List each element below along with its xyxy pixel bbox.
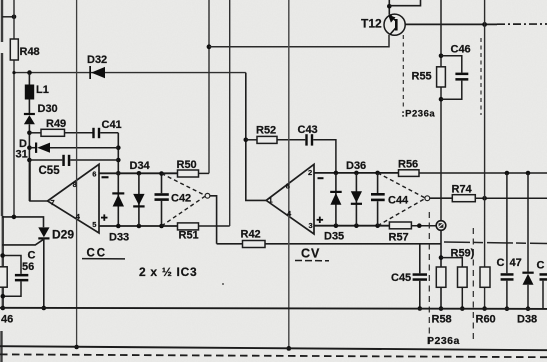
resistor R60 bbox=[476, 267, 496, 326]
svg-text:CC: CC bbox=[87, 248, 108, 260]
resistor R49 bbox=[29, 118, 92, 136]
svg-text:D36: D36 bbox=[346, 160, 366, 172]
op-amp U-IC3a (CC half) bbox=[48, 164, 100, 233]
node: junction (356.4,225.7) bbox=[354, 223, 359, 228]
node: junction left rail on bus bbox=[1, 306, 6, 311]
node: junction (138.9,226) bbox=[137, 224, 142, 229]
svg-text:D32: D32 bbox=[87, 54, 107, 66]
resistor R56 bbox=[398, 159, 547, 177]
minus sign op2 bbox=[318, 177, 324, 179]
resistor R74 bbox=[452, 184, 547, 202]
terminal node (circled) bbox=[436, 221, 446, 231]
node: junction R55 bottom (441,99.2) bbox=[439, 97, 444, 102]
wire: diagonal from D29 cathode to left wire y=245 bbox=[2, 239, 44, 245]
node: junction (13.9,216.9) bbox=[12, 215, 17, 220]
resistor R52 bbox=[246, 125, 305, 144]
node: junction (209,46.8) bbox=[207, 44, 212, 49]
wire: top link (389.3,5.7)-(420.5,5.7) then up bbox=[389, 0, 420, 6]
node: junction power rail on bottom bus bbox=[74, 345, 79, 350]
resistor R57 bbox=[389, 222, 437, 244]
stray mark bbox=[222, 283, 224, 285]
dashed enclosure P236a (bottom) left edge bbox=[428, 212, 430, 344]
wire: T12 collector up to top node bbox=[388, 0, 390, 15]
svg-text:C: C bbox=[497, 257, 505, 269]
svg-text:D33: D33 bbox=[109, 232, 129, 244]
left scan-edge band bbox=[2, 0, 3, 362]
svg-text:D35: D35 bbox=[324, 231, 344, 243]
resistor R59 bbox=[451, 248, 475, 309]
resistor R46 (cut at edge) bbox=[0, 267, 13, 326]
svg-text:P236a: P236a bbox=[427, 335, 460, 347]
wire: terminal down through R58 to bottom bus bbox=[440, 230, 442, 308]
wire: vertical x=209 from top edge down to R50 bbox=[208, 0, 210, 173]
node: junction (161.5,226) bbox=[159, 224, 164, 229]
wire: vertical x=118.3 from C41 corner to minus rail bbox=[117, 133, 119, 174]
svg-text:R51: R51 bbox=[179, 230, 199, 242]
wire: horizontal bus y=308.4 bbox=[0, 308, 547, 309]
wire: CC minus input rail y=173.3 bbox=[99, 172, 178, 174]
node: junction (118.3,160) bbox=[116, 158, 121, 163]
wire: T12 base/right rail y=24.4 solid part bbox=[405, 23, 497, 25]
svg-text:C43: C43 bbox=[298, 124, 318, 136]
svg-text:2 x ½ IC3: 2 x ½ IC3 bbox=[139, 265, 197, 279]
svg-text:31: 31 bbox=[16, 149, 28, 161]
node: junction C47 top (506.9,173) bbox=[505, 171, 510, 176]
wire: chain line y=242.5 right section bbox=[444, 242, 547, 244]
resistor R55 bbox=[412, 67, 446, 87]
wire: R42 line y=243.8 from x=216.6 to x=441 bbox=[217, 243, 441, 245]
svg-text:6: 6 bbox=[92, 170, 96, 179]
node: junction (356.4,172.9) bbox=[354, 171, 359, 176]
wire: vertical x=229.7 from top edge to plus rail bbox=[229, 0, 231, 226]
wire: bottom bus y=347 bbox=[0, 346, 547, 350]
wire: y=24.4 dash-dot continuation to right edge bbox=[497, 23, 547, 25]
node: junction at (14,72.6) bbox=[12, 71, 15, 74]
node: junction (377.6,225.7) bbox=[375, 223, 380, 228]
capacitor C44 bbox=[371, 173, 409, 226]
svg-text:CV: CV bbox=[301, 247, 320, 261]
node: junction R48 rail / left wire bbox=[12, 14, 17, 19]
node: junction (118.3,147.7) bbox=[116, 145, 121, 150]
transistor T12 bbox=[361, 14, 405, 35]
svg-text:C: C bbox=[537, 260, 545, 272]
svg-text:R50: R50 bbox=[177, 159, 197, 171]
capacitor C45 bbox=[391, 244, 427, 309]
diode D32 bbox=[87, 54, 107, 79]
svg-text:C41: C41 bbox=[102, 119, 122, 131]
svg-text:56: 56 bbox=[22, 261, 34, 273]
wire: bubble 2 to R74 bbox=[430, 197, 453, 199]
svg-text:C55: C55 bbox=[39, 165, 61, 177]
node: junction R60 bottom on bus bbox=[482, 306, 487, 311]
svg-text:R59): R59) bbox=[451, 248, 475, 260]
wire: D29 cathode down to bottom bus bbox=[43, 240, 45, 309]
wire: y=216.9 from left edge to D29 anode corner bbox=[2, 217, 44, 227]
capacitor C41 bbox=[92, 119, 121, 138]
wire: component column x=29.4 from D30 down to op-amp output corner bbox=[28, 124, 30, 201]
svg-text:C46: C46 bbox=[451, 44, 471, 56]
node: junction (138.9,173.3) bbox=[137, 171, 142, 176]
wire: horizontal y=72.6 from rail to x=245.8 (through D32) bbox=[14, 72, 246, 74]
node: junction C45 bottom bbox=[418, 306, 423, 311]
svg-text:46: 46 bbox=[1, 314, 13, 326]
svg-text:1: 1 bbox=[269, 196, 273, 205]
node: junction (2.6,255.5) bbox=[0, 253, 5, 258]
diode D33 bbox=[109, 173, 129, 243]
capacitor C43 bbox=[298, 124, 336, 173]
node: junction R58 bottom bbox=[439, 306, 444, 311]
node: junction power rail 2 on bottom bus bbox=[286, 346, 291, 351]
resistor R50 bbox=[177, 159, 210, 177]
svg-text:2: 2 bbox=[308, 168, 312, 177]
node: junction D38 top (528,173) bbox=[526, 171, 531, 176]
svg-text:C45: C45 bbox=[391, 272, 411, 284]
svg-text:R42: R42 bbox=[241, 229, 261, 241]
label CV bbox=[295, 247, 329, 261]
dashed comparator triangle 2 bbox=[378, 173, 425, 226]
svg-text:R52: R52 bbox=[256, 125, 276, 137]
wire: CV minus input rail y=172.9 bbox=[314, 172, 399, 174]
wire: CV plus input rail y=225.7 bbox=[314, 225, 389, 227]
svg-text:R60: R60 bbox=[476, 314, 496, 326]
svg-text:C: C bbox=[28, 250, 36, 262]
node: junction C55 (29.4,160) bbox=[27, 158, 32, 163]
svg-text:47: 47 bbox=[510, 257, 522, 269]
node: output bubble of dashed triangle 1 bbox=[205, 193, 210, 198]
node: junction R52 tap (245.8,139.8) bbox=[244, 138, 249, 143]
wire: vertical x=245.8 from D32 wire down to CV output bbox=[246, 73, 266, 201]
resistor R42 bbox=[241, 229, 266, 248]
plus sign op2 bbox=[317, 217, 324, 223]
wire: left edge to R48 rail at y=16.8 bbox=[2, 16, 14, 18]
svg-text:L1: L1 bbox=[36, 84, 49, 96]
resistor R58 bbox=[432, 267, 452, 326]
node: junction (484.6,24.4) bbox=[482, 22, 487, 27]
diode D29 bbox=[38, 227, 74, 241]
svg-text:8: 8 bbox=[73, 180, 77, 189]
svg-text:T12: T12 bbox=[361, 17, 382, 31]
minus sign op1 bbox=[102, 176, 109, 178]
dashed comparator triangle 1 (second half IC3) bbox=[162, 174, 205, 227]
power rail through op-amp 2 (pins 8/4) x=288.8 bbox=[288, 0, 290, 348]
capacitor at right edge (cut) bbox=[537, 260, 547, 309]
wire: bottom dashed boundary bbox=[0, 354, 547, 357]
svg-text:R58: R58 bbox=[432, 314, 452, 326]
node: junction R60 top (484.6,198.2) bbox=[482, 196, 487, 201]
diode D36 bbox=[346, 160, 366, 226]
dashed enclosure P236a (bottom) right edge bbox=[472, 228, 474, 343]
svg-text:R55: R55 bbox=[412, 71, 432, 83]
capacitor C55 bbox=[29, 155, 118, 177]
resistor R48 bbox=[10, 39, 18, 60]
svg-text:5: 5 bbox=[92, 220, 96, 229]
resistor R51 bbox=[178, 223, 230, 242]
capacitor C42 bbox=[155, 174, 192, 227]
op-amp U-IC3b (CV half) bbox=[266, 164, 314, 234]
node: junction (335.9,225.7) bbox=[334, 223, 339, 228]
capacitor C56 bbox=[3, 250, 36, 297]
svg-text:D29: D29 bbox=[52, 228, 74, 242]
svg-text:3: 3 bbox=[309, 221, 313, 230]
diode D30 bbox=[24, 100, 58, 125]
node: junction (118.3,226) bbox=[116, 224, 121, 229]
label CC bbox=[82, 248, 125, 260]
wire: from bubble right then down to R42 line bbox=[210, 196, 217, 244]
svg-text:8: 8 bbox=[286, 182, 290, 191]
node: junction (335.9,172.9) bbox=[334, 171, 339, 176]
node: junction C47 bottom bbox=[505, 306, 510, 311]
node: junction D38 bottom bbox=[526, 306, 531, 311]
node: junction R59 bottom bbox=[460, 306, 465, 311]
dashed enclosure P236a (top) right edge bbox=[480, 38, 482, 115]
wire: vertical x=441 from top edge down to terminal (through R55) bbox=[440, 0, 442, 221]
capacitor C47 bbox=[497, 173, 522, 309]
svg-text:R57: R57 bbox=[389, 232, 409, 244]
diode D38 bbox=[517, 173, 537, 326]
node: junction (419.3,225.7) bbox=[417, 223, 422, 228]
svg-text:D34: D34 bbox=[130, 160, 151, 172]
node: output bubble of dashed triangle 2 bbox=[425, 196, 430, 201]
node: junction R49 (29.4,132.8) bbox=[27, 131, 32, 136]
dashed enclosure P236a (top) left edge bbox=[402, 35, 404, 107]
svg-text::P236a: :P236a bbox=[402, 109, 436, 120]
diode D35 bbox=[324, 173, 344, 243]
wire: vertical rail x=14 (through R48) bbox=[13, 0, 15, 217]
svg-text:C44: C44 bbox=[388, 195, 409, 207]
wire: vertical x=484.6 from top edge down through R60 to bottom bus bbox=[484, 0, 486, 309]
svg-text:7: 7 bbox=[51, 198, 55, 207]
node: junction D31 (29.4,147.7) bbox=[27, 145, 32, 150]
svg-text:D38: D38 bbox=[517, 314, 537, 326]
plus sign op1 bbox=[101, 214, 108, 220]
node: junction R55 top (441,55.8) bbox=[439, 54, 444, 59]
capacitor C46 bbox=[441, 44, 471, 100]
diode D31 bbox=[16, 138, 119, 161]
node: junction (2.8,296.2) bbox=[1, 294, 6, 299]
wire: T12 emitter line y=46.8 bbox=[209, 35, 389, 47]
node: junction (118.3,173.3) bbox=[116, 171, 121, 176]
svg-text:C42: C42 bbox=[171, 193, 191, 205]
node: junction D29 line on bus bbox=[42, 306, 47, 311]
wire: CC plus input rail y=226 bbox=[99, 225, 178, 227]
svg-text:R48: R48 bbox=[20, 46, 40, 58]
inductor L1 bbox=[25, 73, 49, 100]
svg-text:R74: R74 bbox=[452, 184, 473, 196]
node: junction at (29.5,72.6) bbox=[27, 70, 32, 75]
node: junction (161.5,173.5) bbox=[159, 171, 164, 176]
node: junction (389.3,6.3) bbox=[387, 4, 392, 9]
wire: op1 output from apex left then up to C55 node bbox=[30, 160, 48, 201]
diode D34 bbox=[130, 160, 151, 226]
node: junction R59 branch (441,257.6) bbox=[439, 255, 444, 260]
power rail through op-amp 1 (pins 8/4) x=76.6 bbox=[76, 0, 78, 347]
svg-text:D30: D30 bbox=[38, 103, 58, 115]
svg-text:R49: R49 bbox=[46, 118, 66, 130]
svg-text:R56: R56 bbox=[398, 159, 418, 171]
node: junction (377.6,172.9) bbox=[375, 171, 380, 176]
wire: R59 branch over and down bbox=[441, 258, 462, 267]
